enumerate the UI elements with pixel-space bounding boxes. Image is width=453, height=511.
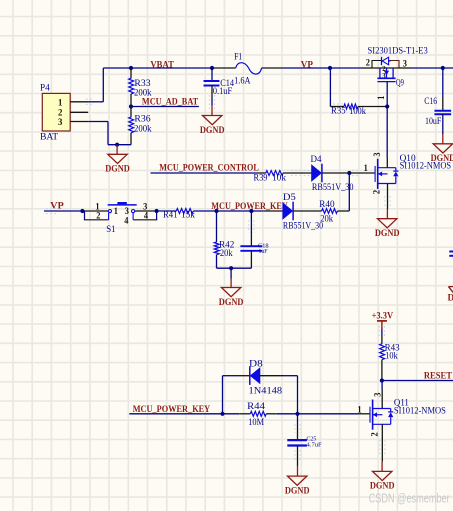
wire C16 bottom lead bbox=[442, 114, 444, 134]
label C16 value bbox=[425, 117, 441, 127]
junction R35/gate bbox=[385, 104, 389, 108]
svg-text:+3.3V: +3.3V bbox=[372, 311, 394, 321]
capacitor partial right edge bbox=[449, 252, 453, 256]
pin number 3 S1 bbox=[143, 201, 148, 211]
junction C18 bbox=[249, 209, 253, 213]
svg-text:R36: R36 bbox=[134, 115, 150, 125]
label R33 value bbox=[134, 89, 152, 99]
wire MCU_POWER_CONTROL bbox=[151, 172, 259, 174]
label R35 value bbox=[349, 107, 366, 117]
resistor R39 bbox=[266, 171, 283, 176]
wire ghost D4 junction bbox=[291, 170, 360, 175]
pin number 2 S1 bbox=[96, 211, 101, 221]
capacitor C25 top lead bbox=[297, 414, 299, 440]
diode D5 bbox=[283, 202, 293, 221]
svg-text:1: 1 bbox=[114, 206, 119, 216]
svg-text:MCU_POWER_KEY: MCU_POWER_KEY bbox=[133, 405, 211, 415]
net label MCU_AD_BAT bbox=[142, 98, 199, 108]
label R43 bbox=[385, 343, 400, 353]
resistor R36 bottom lead bbox=[130, 133, 132, 145]
ground DGND Q11 bbox=[370, 471, 395, 491]
label Q11 partnum bbox=[394, 407, 446, 417]
resistor R39 left lead bbox=[258, 172, 266, 174]
resistor R35 left lead bbox=[330, 106, 344, 108]
wire MCU_AD_BAT bbox=[131, 106, 199, 108]
label C14 value bbox=[213, 87, 232, 97]
label R43 value bbox=[385, 351, 398, 361]
label R44 value bbox=[248, 418, 264, 428]
wire Q11 source bbox=[381, 424, 383, 461]
wire P4 pin1 to VBAT bbox=[89, 101, 103, 103]
wire R40 to D4 junction bbox=[337, 173, 349, 211]
wire R41 to D5 bbox=[193, 210, 263, 212]
pin 1 lead Q11 bbox=[358, 413, 370, 415]
label R41 bbox=[163, 211, 178, 221]
wire VP down to R35 bbox=[329, 68, 331, 107]
svg-text:2: 2 bbox=[366, 58, 371, 68]
svg-text:1.6A: 1.6A bbox=[234, 77, 251, 87]
label R39 bbox=[254, 174, 268, 184]
svg-text:S1: S1 bbox=[106, 225, 116, 235]
svg-text:1N4148: 1N4148 bbox=[249, 386, 283, 396]
capacitor C16 bbox=[434, 111, 451, 115]
wire P4 pin3 to gnd bbox=[88, 122, 131, 145]
resistor R36 bbox=[129, 117, 134, 133]
svg-text:VP: VP bbox=[50, 202, 64, 212]
label 1.6A bbox=[234, 77, 251, 87]
svg-text:SI2301DS-T1-E3: SI2301DS-T1-E3 bbox=[368, 46, 429, 56]
junction gnd R42 bbox=[229, 266, 233, 270]
wire ghost C14 bbox=[209, 95, 214, 109]
label R40 bbox=[319, 200, 335, 210]
pin number 1 Q10 bbox=[364, 163, 369, 173]
capacitor C14 bbox=[204, 81, 220, 86]
pin number 1 Q9 bbox=[376, 95, 386, 100]
junction VBAT/R33 bbox=[129, 66, 133, 70]
svg-text:1uF: 1uF bbox=[259, 249, 269, 255]
fuse F1 bbox=[236, 63, 262, 74]
ground DGND Q10 bbox=[375, 219, 400, 239]
label F1 bbox=[234, 52, 242, 62]
wire ghost C18 bbox=[249, 220, 254, 233]
switch S1 left bracket bbox=[84, 211, 109, 220]
capacitor C18 bbox=[240, 246, 262, 251]
wire Q10 source bbox=[387, 184, 389, 210]
net label MCU_POWER_KEY row3 bbox=[211, 202, 288, 212]
wire D5 to R40 bbox=[293, 210, 322, 212]
resistor R33 bbox=[129, 78, 134, 94]
svg-text:VBAT: VBAT bbox=[150, 61, 174, 71]
label R42 value bbox=[220, 249, 233, 259]
svg-text:4: 4 bbox=[124, 215, 129, 225]
wire fuse to VP junction bbox=[284, 67, 330, 69]
ground DGND P4 bbox=[105, 154, 130, 174]
ground DGND C16 bbox=[431, 144, 453, 164]
junction P4 gnd bbox=[115, 143, 119, 147]
wire ghost R35 bbox=[333, 104, 343, 109]
wire C14 bottom lead bbox=[211, 86, 213, 106]
ground DGND partial right edge bbox=[448, 287, 453, 304]
label D8 partnum bbox=[249, 386, 283, 396]
switch S1 right bracket bbox=[133, 211, 157, 220]
resistor R33 top lead bbox=[130, 68, 132, 78]
connector P4 body bbox=[42, 93, 70, 131]
wire R44 to junction bbox=[277, 413, 298, 415]
net label MCU_POWER_KEY row4 bbox=[133, 405, 211, 415]
label D5 partnum bbox=[283, 222, 323, 232]
junction D8 right bbox=[295, 412, 299, 416]
svg-text:10k: 10k bbox=[385, 351, 398, 361]
wire ghost VP row3 bbox=[46, 208, 57, 213]
junction D4/R40 bbox=[347, 171, 351, 175]
wire fuse left lead bbox=[212, 67, 236, 69]
svg-text:D: D bbox=[448, 294, 453, 304]
svg-text:R33: R33 bbox=[134, 79, 150, 89]
label R44 bbox=[247, 402, 265, 412]
svg-text:MCU_POWER_CONTROL: MCU_POWER_CONTROL bbox=[159, 163, 258, 173]
svg-text:F1: F1 bbox=[234, 52, 242, 62]
power +3.3V bbox=[372, 311, 394, 329]
svg-text:SI1012-NMOS: SI1012-NMOS bbox=[394, 407, 446, 417]
capacitor C25 bottom lead bbox=[297, 446, 299, 467]
wire fuse right lead bbox=[262, 67, 284, 69]
svg-text:2: 2 bbox=[369, 432, 379, 437]
svg-text:1: 1 bbox=[357, 405, 362, 415]
pin number 2 Q11 bbox=[369, 432, 379, 437]
net label RESET bbox=[424, 372, 453, 382]
svg-text:RB551V_30: RB551V_30 bbox=[283, 222, 323, 232]
resistor R40 bbox=[322, 209, 338, 214]
pin 1 P4 bbox=[58, 98, 89, 108]
label R41 value bbox=[181, 211, 195, 221]
svg-text:BAT: BAT bbox=[40, 132, 58, 142]
svg-text:RB551V_30: RB551V_30 bbox=[312, 183, 354, 193]
label R42 bbox=[219, 241, 234, 251]
svg-text:RESET: RESET bbox=[424, 372, 453, 382]
svg-text:15k: 15k bbox=[181, 211, 195, 221]
net label VP bbox=[301, 61, 313, 71]
wire P4 gnd stem bbox=[116, 145, 118, 155]
svg-text:1: 1 bbox=[58, 98, 63, 108]
label P4 bbox=[40, 83, 50, 93]
transistor Q9 symbol bbox=[372, 57, 399, 82]
wire Q11 gnd stem bbox=[381, 462, 383, 472]
diode D8 anode lead bbox=[260, 375, 283, 377]
pin 3 P4 bbox=[58, 118, 88, 128]
label Q10 partnum bbox=[400, 162, 452, 172]
label R40 value bbox=[320, 215, 333, 225]
wire Q11 drain bbox=[381, 381, 383, 409]
wire C14 top lead bbox=[211, 68, 213, 81]
svg-text:D4: D4 bbox=[311, 155, 322, 165]
pin 2 lead Q9 bbox=[362, 67, 372, 69]
label D5 bbox=[283, 193, 296, 203]
net label VP row3 bbox=[50, 202, 64, 212]
diode D8 bbox=[250, 367, 260, 385]
label C18 value bbox=[259, 249, 269, 255]
svg-text:1: 1 bbox=[364, 163, 369, 173]
wire VP row3 bbox=[44, 210, 85, 212]
wire C16 gnd stem bbox=[442, 134, 444, 144]
junction D8 left bbox=[220, 412, 224, 416]
svg-text:D5: D5 bbox=[283, 193, 296, 203]
svg-text:10k: 10k bbox=[272, 174, 286, 184]
resistor R44 right lead bbox=[266, 413, 277, 415]
label S1 bbox=[106, 225, 116, 235]
wire C25 gnd stem bbox=[297, 466, 299, 476]
svg-text:DGND: DGND bbox=[375, 229, 400, 239]
svg-text:R44: R44 bbox=[247, 402, 265, 412]
wire ghost Q11 source bbox=[380, 440, 385, 456]
label C25 bbox=[307, 436, 317, 442]
resistor R43 bbox=[380, 344, 385, 360]
pin number 3 Q10 bbox=[372, 152, 382, 157]
resistor R41 bbox=[176, 209, 193, 214]
wire Q9 to C16 bbox=[412, 67, 453, 69]
wire R42 gnd stem bbox=[230, 268, 232, 287]
resistor R42 bottom lead bbox=[216, 255, 218, 269]
svg-text:3: 3 bbox=[58, 118, 63, 128]
switch S1 pin lead right bbox=[135, 210, 157, 212]
svg-text:DGND: DGND bbox=[200, 126, 225, 136]
wire MCU_POWER_KEY row4 bbox=[129, 413, 239, 415]
pin number 2 Q10 bbox=[372, 189, 382, 194]
junction S1 right bbox=[155, 209, 159, 213]
net label MCU_POWER_CONTROL bbox=[159, 163, 258, 173]
pin number 3 Q9 bbox=[403, 59, 408, 69]
svg-text:20k: 20k bbox=[220, 249, 233, 259]
svg-text:3: 3 bbox=[372, 152, 382, 157]
label Q9 bbox=[396, 79, 404, 89]
svg-text:10M: 10M bbox=[248, 418, 264, 428]
transistor Q10 bbox=[375, 159, 398, 189]
resistor R43 bottom lead bbox=[381, 360, 383, 381]
label BAT bbox=[40, 132, 58, 142]
label C16 bbox=[424, 97, 437, 107]
wire ghost C25 top bbox=[295, 424, 300, 433]
svg-text:10uF: 10uF bbox=[425, 117, 441, 127]
transistor Q11 bbox=[370, 400, 393, 430]
capacitor C18 bottom lead bbox=[250, 251, 252, 268]
wire ghost Q10 source bbox=[385, 196, 390, 208]
svg-text:VP: VP bbox=[301, 61, 313, 71]
label C14 bbox=[220, 79, 234, 89]
label S1 pin4 inner bbox=[124, 215, 129, 225]
junction R33/R36 bbox=[129, 104, 133, 108]
pin 1 lead Q10 bbox=[349, 172, 375, 174]
wire ghost C25 bottom bbox=[295, 450, 300, 462]
svg-text:3: 3 bbox=[382, 72, 386, 80]
label R36 value bbox=[134, 124, 152, 134]
svg-text:DGND: DGND bbox=[219, 298, 244, 308]
resistor R44 left lead bbox=[239, 413, 250, 415]
ground DGND R42 bbox=[219, 288, 244, 308]
wire R42-C18 bottom bbox=[217, 267, 252, 269]
wire D8 left vertical bbox=[223, 376, 239, 414]
svg-text:C25: C25 bbox=[307, 436, 317, 442]
wire VP to Q9 bbox=[330, 67, 362, 69]
wire VBAT rail bbox=[103, 68, 212, 102]
resistor R43 top lead bbox=[381, 329, 383, 344]
label D4 partnum bbox=[312, 183, 354, 193]
label Q10 bbox=[400, 154, 416, 164]
resistor R36 top lead bbox=[130, 107, 132, 117]
svg-text:SI1012-NMOS: SI1012-NMOS bbox=[400, 162, 452, 172]
svg-text:0.1uF: 0.1uF bbox=[213, 87, 232, 97]
svg-text:100k: 100k bbox=[349, 107, 366, 117]
svg-text:4: 4 bbox=[144, 211, 149, 221]
junction RESET bbox=[380, 378, 384, 382]
label D8 bbox=[249, 359, 263, 369]
svg-text:3: 3 bbox=[372, 392, 382, 397]
resistor R42 bbox=[214, 242, 219, 255]
wire Q10 gnd stem bbox=[386, 209, 388, 219]
svg-text:R39: R39 bbox=[254, 174, 268, 184]
diode D5 anode lead bbox=[264, 210, 283, 212]
label S1 pin3 inner bbox=[125, 206, 130, 216]
svg-text:R41: R41 bbox=[163, 211, 178, 221]
switch S1 pin lead left bbox=[85, 210, 109, 212]
junction VP/R35 bbox=[328, 66, 332, 70]
wire ghost R43 bbox=[379, 326, 384, 336]
diode D8 cathode lead bbox=[238, 375, 250, 377]
resistor R39 right lead bbox=[283, 172, 311, 174]
pin number 1 S1 bbox=[95, 201, 100, 211]
wire Q9 gate bbox=[386, 82, 388, 107]
ground DGND C14 bbox=[200, 116, 225, 136]
net label VBAT bbox=[150, 61, 174, 71]
watermark bbox=[369, 492, 450, 506]
svg-text:20k: 20k bbox=[320, 215, 333, 225]
svg-text:D8: D8 bbox=[249, 359, 263, 369]
svg-text:DGND: DGND bbox=[370, 482, 395, 492]
svg-text:C16: C16 bbox=[424, 97, 437, 107]
diode D4 bbox=[312, 164, 322, 183]
svg-text:Q9: Q9 bbox=[396, 79, 404, 89]
wire Q10 drain bbox=[386, 158, 388, 168]
label S1 pin1 inner bbox=[114, 206, 119, 216]
label R35 bbox=[331, 107, 346, 117]
svg-text:4.7uF: 4.7uF bbox=[307, 443, 323, 449]
svg-text:DGND: DGND bbox=[285, 486, 310, 496]
pin number 1 Q11 bbox=[357, 405, 362, 415]
svg-text:DGND: DGND bbox=[105, 165, 130, 175]
resistor R42 top lead bbox=[216, 211, 218, 242]
wire gate to Q10 drain bbox=[386, 107, 388, 159]
wire ghost P4 pin1 bbox=[86, 99, 94, 104]
svg-text:P4: P4 bbox=[40, 83, 50, 93]
resistor R33 bottom lead bbox=[130, 94, 132, 107]
resistor R35 bbox=[344, 104, 358, 109]
svg-text:1: 1 bbox=[376, 95, 386, 100]
resistor R35 right lead bbox=[358, 106, 387, 108]
wire C16 top lead bbox=[442, 68, 444, 111]
svg-text:2: 2 bbox=[372, 189, 382, 194]
svg-text:3: 3 bbox=[403, 59, 408, 69]
wire S1 to R41 bbox=[157, 210, 177, 212]
capacitor C25 bbox=[287, 440, 307, 445]
label Q11 bbox=[394, 399, 409, 409]
pin 3 lead Q9 bbox=[399, 67, 412, 69]
wire key row to Q11 bbox=[298, 413, 359, 415]
label R36 bbox=[134, 115, 150, 125]
wire D4 to Q10 gate bbox=[322, 172, 349, 174]
svg-text:R35: R35 bbox=[331, 107, 346, 117]
label D4 bbox=[311, 155, 322, 165]
label C25 value bbox=[307, 443, 323, 449]
resistor R44 bbox=[250, 411, 266, 416]
label R39 value bbox=[272, 174, 286, 184]
junction VBAT/C14 bbox=[210, 66, 214, 70]
svg-text:2: 2 bbox=[96, 211, 101, 221]
pin number 2 Q9 bbox=[366, 58, 371, 68]
svg-text:MCU_AD_BAT: MCU_AD_BAT bbox=[142, 98, 199, 108]
junction R42 bbox=[214, 209, 218, 213]
wire D8 right vertical bbox=[283, 376, 298, 414]
junction S1 left bbox=[80, 209, 84, 213]
pin number 3 Q11 bbox=[372, 392, 382, 397]
svg-text:200k: 200k bbox=[134, 124, 152, 134]
label Q9 partnum bbox=[368, 46, 429, 56]
switch S1 contacts bbox=[108, 202, 137, 213]
wire RESET bbox=[382, 380, 453, 382]
wire C14 gnd stem bbox=[211, 106, 213, 116]
pin number 4 S1 bbox=[144, 211, 149, 221]
capacitor C18 top lead bbox=[250, 211, 252, 246]
svg-text:R40: R40 bbox=[319, 200, 335, 210]
ground DGND C25 bbox=[285, 476, 310, 496]
pin 2 P4 bbox=[58, 109, 88, 119]
label C18 bbox=[258, 243, 269, 249]
svg-text:CSDN @esmember: CSDN @esmember bbox=[369, 492, 450, 506]
junction C16 bbox=[441, 66, 445, 70]
label R33 bbox=[134, 79, 150, 89]
